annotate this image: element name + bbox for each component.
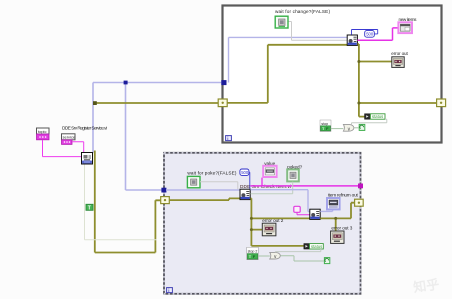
wire: olive node1 down with branches — [250, 198, 310, 246]
node: olive junction — [93, 101, 97, 105]
svg-text:∨: ∨ — [347, 126, 351, 132]
wire: lavender inside bottom loop to Check Item node — [166, 189, 241, 191]
terminal: loop condition (green, bottom loop) — [324, 258, 329, 264]
wire: thin wire status to OR gate — [352, 119, 387, 124]
wire: magenta new-items wire — [357, 28, 398, 40]
while loop 2 (bottom, selected) — [164, 153, 361, 294]
wire: OR 2 output to condition terminal — [281, 256, 325, 261]
terminal: iteration i (bottom loop) — [167, 288, 173, 293]
label: wait for change?(FALSE) — [275, 9, 330, 14]
gate: OR function (top loop) — [343, 124, 354, 132]
svg-text:status: status — [372, 114, 383, 119]
tunnel: olive tunnel on bottom loop right edge — [355, 199, 364, 206]
indicator: value icon (pink glow) — [263, 166, 276, 177]
control: stop boolean icon (top loop) — [320, 120, 331, 131]
constant: wait for change boolean icon — [275, 16, 288, 28]
constant: numeric 500 (timeout, top loop) — [365, 31, 375, 38]
wire: lavender node2 to item refnum out — [320, 210, 332, 212]
while loop 1 (top) — [223, 6, 442, 143]
svg-text:stop 2: stop 2 — [248, 250, 258, 254]
wire: blue timeout wire (bottom loop) — [249, 172, 250, 189]
svg-text:error out 2: error out 2 — [262, 218, 283, 223]
wire: stop 2 to OR gate — [258, 255, 270, 257]
wire: lavender refnum vertical from DDE Srv Register Service.vi — [92, 83, 94, 154]
svg-text:wait for poke?(FALSE): wait for poke?(FALSE) — [187, 171, 236, 176]
control: stop 2 boolean icon — [247, 247, 258, 259]
indicator: new items icon (pink glow) — [398, 22, 412, 33]
node: lavender junction dot — [124, 81, 128, 85]
constant: string constant service (pink) — [62, 134, 76, 145]
svg-text:∨: ∨ — [273, 254, 277, 260]
wire: gray boolean wire from wait-for-poke to node — [200, 182, 238, 190]
terminal: iteration i (top loop) — [226, 136, 232, 141]
wire: thin wire status2 to OR gate — [275, 249, 321, 252]
svg-text:i: i — [168, 288, 169, 293]
sub-VI: DDE Srv Register Service.vi icon — [82, 153, 93, 165]
wire: lavender inside top loop up and right to node — [229, 37, 349, 82]
label: value — [264, 161, 275, 166]
wire: error cluster olive horizontal to top loop left tunnel — [95, 102, 219, 104]
wire: stop to OR gate — [331, 128, 343, 130]
tunnel: olive tunnel on top loop left edge — [218, 99, 227, 107]
svg-text:service: service — [63, 135, 76, 140]
indicator: status box (bottom loop) — [310, 244, 324, 249]
indicator: status box (top loop) — [370, 114, 385, 119]
svg-text:wait for change?(FALSE): wait for change?(FALSE) — [275, 9, 330, 14]
tunnel: olive tunnel on top loop right edge — [437, 99, 446, 107]
svg-text:i: i — [227, 136, 228, 141]
label: error out 3 — [331, 225, 352, 230]
label: error out — [391, 51, 408, 56]
tunnel: olive tunnel on bottom loop left edge — [161, 197, 170, 204]
svg-text:DDE Srv Register Service.vi: DDE Srv Register Service.vi — [62, 125, 107, 130]
svg-text:new items: new items — [399, 17, 418, 22]
terminal: loop condition (green, top loop) — [359, 124, 365, 130]
svg-text:error out 3: error out 3 — [331, 225, 352, 230]
constant: boolean T (green) — [86, 204, 93, 211]
label: new items — [399, 17, 418, 22]
label: item refnum out — [328, 193, 359, 198]
constant: wait for poke boolean icon — [187, 176, 200, 187]
wire: olive bottom elbow to bottom loop tunnel — [95, 200, 164, 252]
wire: faint boolean wire from subVI down and right — [85, 164, 157, 240]
node: unbundle status (bottom loop) — [304, 244, 310, 249]
gate: OR function (bottom loop) — [270, 252, 281, 260]
indicator: item refnum out icon (lavender glow) — [327, 198, 340, 209]
watermark — [412, 276, 440, 294]
wire: thin green wire node to poked? — [250, 182, 292, 194]
node: unbundle status (top loop) — [365, 114, 371, 119]
indicator: error out 2 icon — [262, 223, 276, 236]
label: error out 2 — [262, 218, 283, 223]
wire: olive inside bottom loop to Check Item node — [169, 198, 241, 200]
wire: OR to condition terminal — [354, 127, 359, 129]
tunnel: lavender tunnel dot on bottom loop left edge — [161, 188, 166, 193]
svg-text:500: 500 — [241, 170, 249, 175]
wire: olive error inside top loop to node — [226, 45, 348, 103]
svg-text:T: T — [88, 205, 91, 211]
indicator: poked? boolean icon (green glow) — [287, 169, 299, 181]
label: DDE Srv Check Item.vi — [240, 184, 291, 189]
wire: magenta item wire across bottom loop — [250, 185, 359, 187]
wire: pink wire empty string to node2 — [297, 212, 310, 214]
svg-text:知乎: 知乎 — [412, 276, 440, 294]
wire: pink string wire from topic constant — [43, 140, 83, 157]
wire: olive from node down with branches — [357, 44, 437, 117]
wire: pink branch up to value indicator — [261, 178, 263, 186]
node: lavender tunnel dot on top loop edge — [221, 80, 226, 85]
wire: lavender branch down to bottom loop — [126, 83, 165, 191]
indicator: error out icon — [392, 57, 404, 68]
sub-VI: DDE Srv Wait on Change node (top loop) — [347, 35, 357, 45]
svg-text:500: 500 — [366, 32, 374, 37]
label: wait for poke?(FALSE) — [187, 171, 236, 176]
wire: error cluster olive vertical down left side — [94, 151, 96, 253]
constant: string constant topic (pink) — [37, 128, 50, 140]
label: poked? — [287, 164, 302, 169]
tunnel: magenta tunnel on bottom loop right edge — [358, 184, 363, 189]
constant: numeric 500 (timeout, bottom loop) — [240, 169, 249, 175]
wire: blue timeout wire loop — [352, 30, 378, 35]
svg-text:item refnum out: item refnum out — [328, 193, 359, 198]
sub-VI: DDE Srv Set Item node (node2) — [310, 209, 320, 219]
svg-text:error out: error out — [391, 51, 408, 56]
wire: lavender refnum horizontal to top loop — [93, 82, 224, 84]
constant: empty string (pink, bottom loop) — [294, 206, 300, 212]
svg-text:status: status — [311, 244, 322, 249]
indicator: error out 3 icon — [331, 231, 344, 243]
label: DDE Srv Register Service.vi — [62, 125, 107, 130]
wire: pink string wire from service constant — [72, 142, 84, 153]
wire: gray boolean wire from wait-for-change constant to node — [288, 22, 348, 41]
sub-VI: DDE Srv Check Item node — [240, 189, 250, 199]
svg-text:topic: topic — [38, 129, 46, 134]
wire: olive node2 error with branches — [320, 203, 355, 232]
wire: lavender node1 to node2 — [250, 190, 310, 212]
